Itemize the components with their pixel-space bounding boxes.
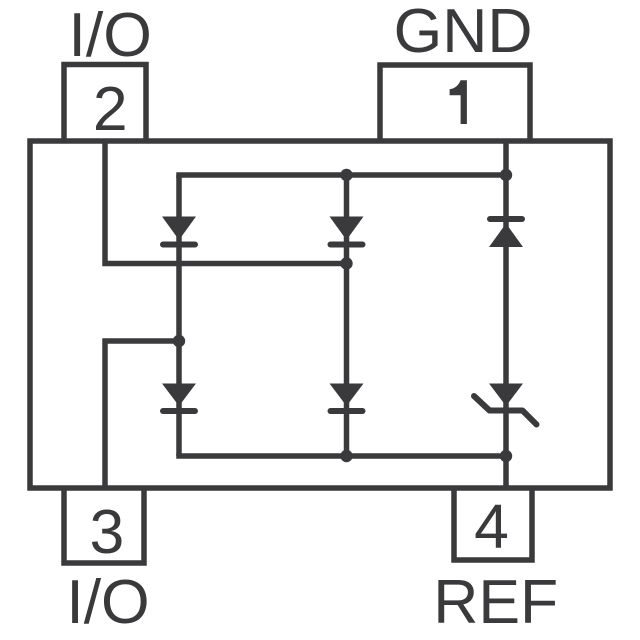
wire: GND top rail	[176, 172, 506, 178]
junction dot: middle branch / bottom rail	[340, 450, 352, 462]
wire: left branch vertical	[176, 175, 182, 456]
junction dot: pin3 wire / left branch	[173, 335, 185, 347]
wire: middle branch vertical	[344, 175, 350, 456]
svg-text:REF: REF	[433, 567, 558, 637]
wire: pin 2 to middle branch	[105, 141, 347, 264]
pin 1 box	[380, 65, 530, 143]
diode D2 (middle top, cathode down)	[330, 217, 364, 245]
pin 2 box	[64, 65, 146, 144]
junction dot: middle branch / top rail	[340, 169, 352, 181]
svg-text:I/O: I/O	[69, 0, 152, 70]
svg-text:4: 4	[474, 492, 509, 562]
wire: pin 3 to left branch	[105, 341, 179, 488]
IC body outline	[30, 141, 610, 488]
svg-text:GND: GND	[394, 0, 533, 66]
junction dot: pin2 wire / middle branch	[340, 257, 352, 269]
junction dot: right branch / top rail	[500, 169, 512, 181]
pin 4 box	[454, 486, 532, 560]
pin number 1	[450, 80, 467, 124]
diode D3 (right top, cathode up)	[489, 219, 523, 247]
diode D5 (middle bottom, cathode down)	[330, 384, 364, 412]
wire: REF bottom rail	[176, 453, 506, 459]
wire: right branch vertical (pin1 to pin4)	[503, 141, 509, 488]
diode D4 (left bottom, cathode down)	[162, 384, 196, 412]
svg-text:3: 3	[90, 497, 125, 567]
pin 3 box	[64, 486, 144, 563]
svg-text:2: 2	[93, 74, 128, 144]
svg-text:I/O: I/O	[66, 567, 149, 637]
diode D1 (left top, cathode down)	[162, 217, 196, 245]
zener diode Z1 (right bottom, cathode down with bent bar)	[474, 384, 537, 425]
junction dot: right branch / bottom rail	[500, 450, 512, 462]
